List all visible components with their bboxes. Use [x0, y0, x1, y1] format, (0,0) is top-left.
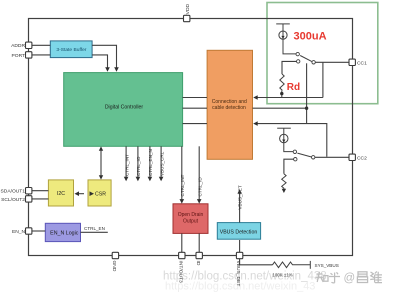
resistor Rd2 — [282, 174, 286, 190]
svg-text:CSR: CSR — [95, 192, 106, 198]
svg-text:CTRL_EN_N: CTRL_EN_N — [148, 149, 153, 176]
VBUS detection block — [217, 223, 260, 240]
wire ctrl 4 — [159, 146, 165, 181]
svg-text:CC1: CC1 — [357, 60, 367, 66]
wire EN_N to logic — [32, 230, 45, 232]
pin CC1 — [349, 59, 367, 66]
wire CTRL_ID to open drain — [197, 146, 203, 203]
wire open drain to INT/OUT3 pin — [181, 233, 183, 252]
svg-text:EN_N: EN_N — [12, 229, 26, 235]
svg-text:CTRL_IO: CTRL_IO — [136, 156, 141, 176]
wire pin to resistor — [240, 259, 273, 265]
pin SCL/OUT2 — [1, 196, 32, 203]
wire ctrl 2 — [136, 146, 142, 181]
pin ID — [195, 252, 203, 266]
svg-text:Output: Output — [183, 219, 199, 225]
svg-text:@: @ — [344, 273, 356, 285]
wire DC to detection 3 — [183, 123, 208, 125]
wire common branch down — [322, 62, 324, 97]
svg-text:GND: GND — [111, 261, 117, 272]
green highlight box — [267, 3, 378, 104]
wire lower contact to Rd — [282, 61, 297, 74]
svg-text:CC2: CC2 — [357, 155, 367, 161]
wire VBUS_DET signal up — [237, 185, 242, 222]
wire VBUS detection to pin — [239, 240, 241, 252]
wire ctrl 3 — [148, 146, 154, 181]
svg-text:PORT: PORT — [12, 53, 26, 59]
pin GND — [111, 252, 119, 272]
svg-text:CTRL_ID: CTRL_ID — [197, 177, 202, 197]
wire open drain to ID pin — [198, 233, 200, 252]
pin INT/OUT3 — [177, 252, 185, 283]
wire SCL to I2C — [32, 198, 49, 200]
svg-text:VBUS_DET: VBUS_DET — [235, 261, 241, 287]
wire ADDR to buffer — [32, 44, 50, 46]
svg-text:EN_N Logic: EN_N Logic — [50, 231, 79, 237]
svg-text:3-State Buffer: 3-State Buffer — [56, 47, 86, 53]
svg-text:SDA/OUT1: SDA/OUT1 — [1, 189, 26, 195]
svg-text:CTRL_INT: CTRL_INT — [124, 154, 129, 176]
digital controller — [64, 73, 183, 147]
wire buffer out2 — [92, 55, 110, 72]
svg-text:VBUS_DET: VBUS_DET — [238, 185, 243, 209]
wire CC1 common to pin — [315, 61, 349, 63]
wire PORT to buffer — [32, 54, 50, 56]
svg-text:CTRL_INT: CTRL_INT — [180, 174, 185, 196]
EN_N logic block — [45, 223, 80, 241]
connection and cable detection — [207, 50, 252, 159]
svg-text:Open Drain: Open Drain — [178, 212, 204, 218]
svg-text:ID: ID — [195, 261, 201, 266]
svg-text:I2C: I2C — [57, 191, 65, 197]
wire ctrl 1 — [124, 146, 130, 181]
svg-text:300uA: 300uA — [294, 31, 327, 43]
svg-text:CTRL_EN: CTRL_EN — [84, 226, 105, 231]
pin VDD — [184, 4, 192, 22]
wire CTRL_EN — [81, 231, 108, 233]
svg-text:Rd: Rd — [287, 82, 300, 93]
outer border — [29, 19, 353, 256]
wire CTRL_INT to open drain — [180, 146, 186, 203]
pin CC2 — [349, 154, 367, 161]
svg-text:INT/OUT3: INT/OUT3 — [177, 261, 183, 284]
I2C block — [48, 180, 73, 206]
wire CC2 common to pin — [315, 156, 349, 158]
pin VBUS_DET — [235, 252, 243, 286]
junction node — [305, 107, 308, 110]
wire switch tap down — [306, 63, 308, 123]
svg-text:ADDR: ADDR — [11, 43, 25, 49]
wire DC to detection 1 — [183, 97, 208, 99]
wire I2C-CSR double arrow — [75, 191, 95, 196]
watermark zhihu — [316, 271, 383, 283]
wire line 3 to CC2 — [253, 121, 327, 157]
svg-text:SYS_VBUS: SYS_VBUS — [315, 263, 339, 268]
CSR block — [88, 180, 111, 206]
svg-text:100K ±1%: 100K ±1% — [272, 272, 292, 277]
resistor Rd — [280, 74, 284, 91]
switch SW2 — [293, 150, 315, 161]
switch SW1 — [296, 52, 315, 64]
wire lower contact to Rd2 — [284, 159, 294, 174]
wire buffer out1 — [92, 45, 119, 72]
svg-text:cable detection: cable detection — [212, 105, 246, 111]
open drain output block — [173, 204, 208, 234]
current source I1 — [276, 24, 296, 54]
resistor 100K — [273, 262, 311, 268]
svg-text:VBUS_CRL: VBUS_CRL — [159, 151, 164, 176]
pin PORT — [12, 52, 32, 59]
wire line 2 to junction — [253, 107, 307, 109]
wire DC-CSR double arrow — [99, 146, 103, 179]
pin EN_N — [12, 228, 32, 235]
terminal arrow Rd2 — [282, 189, 286, 193]
pin ADDR — [11, 42, 32, 49]
terminal tick SYS_VBUS — [309, 261, 311, 269]
svg-text:SCL/OUT2: SCL/OUT2 — [1, 197, 25, 203]
3-state buffer U1 — [50, 41, 92, 58]
current source I2 — [277, 128, 293, 151]
svg-text:Digital Controller: Digital Controller — [105, 105, 144, 111]
svg-text:VDD: VDD — [185, 4, 191, 15]
svg-text:VBUS Detection: VBUS Detection — [220, 230, 258, 236]
wire SDA to I2C — [32, 190, 49, 192]
pin SDA/OUT1 — [1, 188, 32, 195]
node Rd bottom — [280, 91, 283, 98]
wire DC to detection 2 — [183, 107, 208, 109]
wire monitor line 1 with arrow — [253, 95, 323, 100]
